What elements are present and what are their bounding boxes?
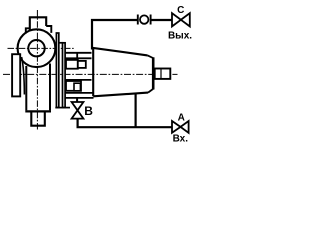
pump horizontal centerline [8, 47, 76, 49]
wire bottom pipe [78, 119, 173, 127]
discharge nozzle [30, 17, 46, 30]
union fitting circle [140, 15, 148, 23]
shaft axis centerline [3, 73, 178, 75]
valve B [72, 102, 84, 119]
coupling box A [66, 60, 78, 69]
motor body [93, 48, 148, 96]
svg-text:Вых.: Вых. [168, 30, 192, 41]
pump volute inner circle [28, 40, 44, 56]
bearing line [65, 57, 91, 59]
motor right chamfers [148, 55, 153, 92]
valve C [172, 13, 190, 26]
union fitting ticks [137, 15, 139, 25]
pump vertical centerline [36, 10, 38, 130]
nozzle left shoulder [26, 28, 30, 33]
frame slab bottom [65, 97, 94, 99]
shaft box [155, 69, 171, 79]
pedestal bottom plate [25, 110, 51, 112]
lower line [65, 79, 91, 81]
suction flange [12, 54, 20, 96]
svg-text:В: В [84, 104, 93, 118]
pedestal [26, 64, 50, 111]
bearing housing top box [65, 53, 91, 59]
svg-text:Вх.: Вх. [173, 134, 189, 145]
coupling box D [66, 81, 81, 91]
coupling box D inner [74, 83, 80, 91]
wire riser from motor [135, 94, 137, 129]
plates bottom line [55, 107, 70, 109]
wire top pipe right segment [151, 19, 173, 21]
shaft box divider [160, 69, 162, 79]
svg-text:А: А [178, 112, 185, 123]
plate2 cap tick [58, 42, 63, 44]
rear plate 2 [63, 43, 66, 108]
valve B drain stub [76, 98, 78, 102]
nozzle right shoulder [46, 26, 51, 33]
wire top discharge pipe [92, 20, 137, 50]
coupling box C [78, 61, 86, 68]
motor face [152, 57, 155, 89]
rear plate 1 [56, 33, 58, 108]
pump volute outer circle [18, 29, 56, 67]
pedestal foot [31, 113, 45, 126]
svg-text:С: С [177, 5, 184, 16]
casing wall curve [22, 57, 25, 95]
valve A [172, 121, 189, 133]
frame slab top [65, 92, 94, 94]
